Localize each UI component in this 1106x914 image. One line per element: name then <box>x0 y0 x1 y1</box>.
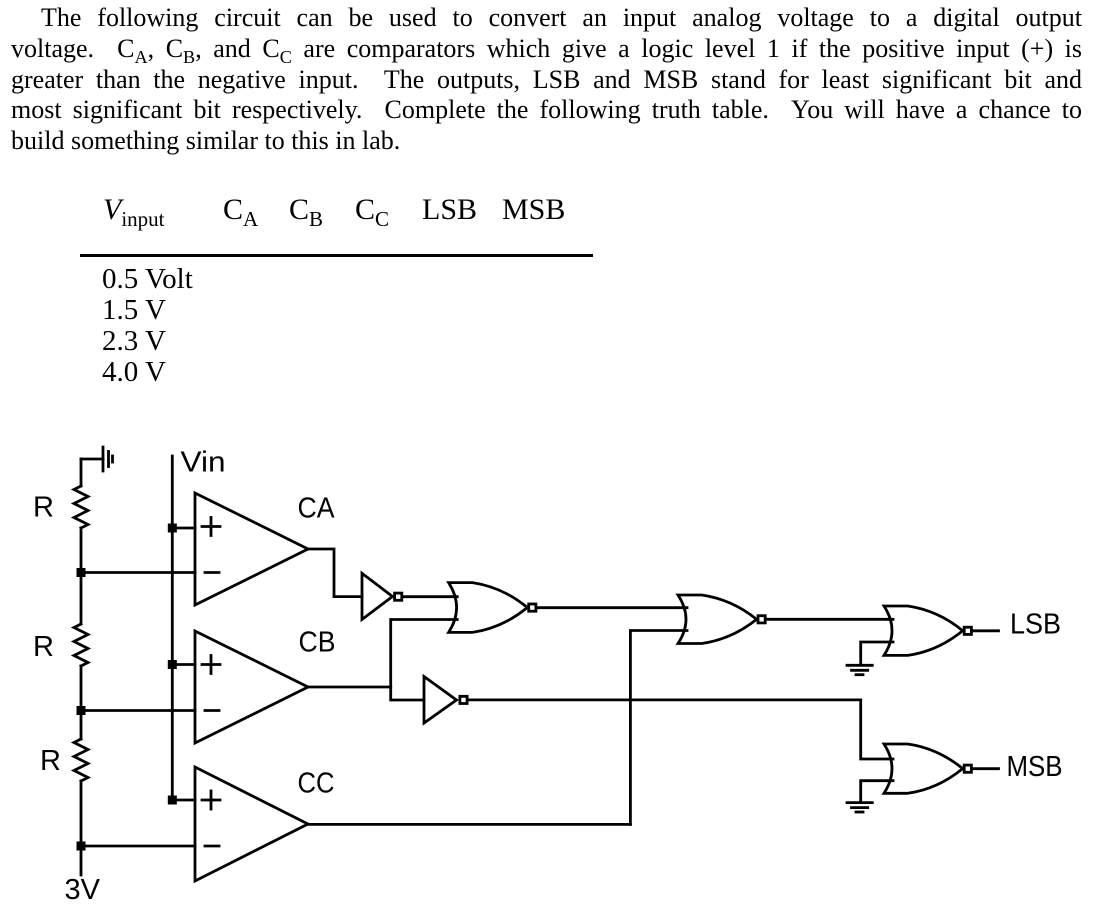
table rule <box>80 254 593 257</box>
ground G1 (LSB) <box>847 665 872 674</box>
node C (R3-3V junction) <box>77 842 86 851</box>
wire U1 to NOR G1 top input <box>403 595 458 598</box>
svg-text:LSB: LSB <box>1010 609 1061 641</box>
wire Vin to CA + <box>172 527 195 530</box>
wire G1 output to NOR G2 <box>537 606 687 609</box>
comparator CA <box>195 493 308 605</box>
wire U2 output to MSB riser <box>468 699 861 702</box>
wire rail bottom <box>80 781 83 875</box>
wire node A to CA - <box>81 571 195 574</box>
paragraph text <box>11 3 1082 157</box>
table rows <box>102 263 193 296</box>
svg-text:R: R <box>40 745 61 777</box>
wire riser CB node to NOR G1 bottom input <box>391 620 458 701</box>
wire CC output <box>308 823 630 826</box>
wire node B to CB - <box>81 709 195 712</box>
NOR gate G2 <box>678 595 765 644</box>
Vin rail <box>171 456 174 800</box>
svg-text:CB: CB <box>299 627 336 659</box>
svg-text:3V: 3V <box>65 874 101 906</box>
truth table header <box>103 193 165 227</box>
wire rail R1-R2 <box>80 528 83 624</box>
wire CA output to inverter U1 <box>308 549 362 597</box>
node Vin-CA <box>168 524 177 533</box>
wire ladder rail top <box>80 459 83 486</box>
node Vin-CC <box>168 796 177 805</box>
wire Vin to CB + <box>172 663 195 666</box>
wire MSB output <box>972 767 998 770</box>
node A (R1-R2 junction) <box>77 568 86 577</box>
wire LSB output <box>972 629 998 632</box>
svg-text:R: R <box>33 631 54 663</box>
wire CB output <box>308 686 391 689</box>
svg-text:CA: CA <box>298 493 336 525</box>
wire riser CC to NOR G2 bottom input <box>630 631 687 825</box>
ground G2 (MSB) <box>847 803 872 812</box>
wire rail R2-R3 <box>80 666 83 739</box>
comparator CB <box>195 631 308 743</box>
svg-text:R: R <box>33 492 54 524</box>
svg-text:MSB: MSB <box>1007 751 1063 783</box>
NOR gate G1 <box>449 583 536 633</box>
NOR gate G4 (MSB) <box>884 744 971 793</box>
resistor R1 <box>74 486 88 528</box>
svg-text:Vin: Vin <box>181 447 226 479</box>
inverter U2 <box>424 677 467 724</box>
resistor R3 <box>74 739 88 781</box>
wire G2 output to LSB gate top input <box>766 618 893 621</box>
wire MSB gate bottom input to ground <box>861 781 893 801</box>
resistor R2 <box>74 624 88 666</box>
wire Vin to CC + <box>172 799 195 802</box>
inverter U1 <box>362 573 402 619</box>
wire node C to CC - <box>81 845 195 848</box>
NOR gate G3 (LSB) <box>884 606 971 655</box>
wire LSB gate bottom input to ground <box>861 642 893 664</box>
svg-text:CC: CC <box>298 768 335 800</box>
comparator CC <box>195 767 308 881</box>
node Vin-CB <box>168 660 177 669</box>
wire riser to MSB gate top input <box>861 700 893 759</box>
ground (top of resistor ladder) <box>81 447 113 471</box>
node B (R2-R3 junction) <box>77 706 86 715</box>
